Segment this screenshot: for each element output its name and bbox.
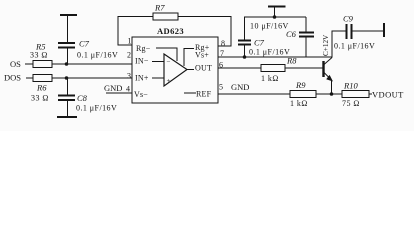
transistor Q1 — [324, 58, 334, 95]
pin label OUT — [195, 64, 212, 73]
svg-text:5: 5 — [219, 83, 223, 92]
svg-text:C6: C6 — [286, 29, 297, 39]
node GND label pin5 — [231, 82, 249, 92]
node +12V rail label — [322, 34, 330, 56]
resistor R9 — [290, 80, 316, 108]
node junction ground tap — [273, 15, 277, 19]
capacitor C8 — [58, 78, 117, 116]
capacitor C7 left — [58, 15, 118, 64]
node junction DOS C8 — [65, 76, 69, 80]
svg-text:OS: OS — [10, 59, 21, 69]
svg-text:GND: GND — [231, 82, 249, 92]
ground bottom-left — [57, 116, 77, 118]
svg-text:0.1 μF/16V: 0.1 μF/16V — [249, 48, 290, 57]
svg-text:1 kΩ: 1 kΩ — [261, 74, 279, 83]
wire Rg- internal — [156, 48, 177, 61]
svg-text:IN+: IN+ — [135, 74, 149, 83]
svg-text:2: 2 — [127, 51, 131, 60]
resistor R8 — [261, 56, 297, 84]
svg-text:6: 6 — [219, 61, 223, 70]
resistor R6 — [31, 75, 52, 103]
svg-text:R6: R6 — [36, 83, 47, 93]
wire mid ground rail — [244, 16, 306, 18]
pin label Vs+ — [195, 51, 209, 60]
wire C9 right segment — [352, 30, 383, 32]
wire triangle input stubs — [152, 62, 164, 79]
capacitor C6 — [250, 17, 314, 57]
svg-text:0.1 μF/16V: 0.1 μF/16V — [77, 51, 118, 60]
node C9 terminal bar — [383, 23, 385, 37]
resistor R5 — [30, 42, 52, 68]
svg-text:AD623: AD623 — [157, 26, 184, 36]
wire pin7 Vs+ supply line — [218, 56, 332, 58]
wire R7 feedback loop pin1 to pin8 — [118, 17, 231, 47]
node junction emitter R9 R10 — [330, 92, 334, 96]
svg-text:DOS: DOS — [4, 73, 21, 83]
node VDOUT output label — [372, 90, 404, 100]
svg-text:75 Ω: 75 Ω — [342, 99, 360, 108]
capacitor C9 — [334, 14, 375, 51]
svg-text:R8: R8 — [286, 56, 297, 66]
svg-text:C8: C8 — [77, 93, 88, 103]
wire Rg+ internal — [184, 49, 194, 67]
svg-text:1: 1 — [128, 37, 132, 46]
wire REF internal stub — [184, 92, 196, 94]
pin label IN- — [135, 57, 149, 66]
node OS label — [10, 59, 21, 69]
svg-text:10 μF/16V: 10 μF/16V — [250, 22, 289, 31]
resistor R7 — [153, 3, 178, 21]
pin label Rg+ — [195, 43, 210, 52]
node DOS label — [4, 73, 21, 83]
svg-text:IN−: IN− — [135, 57, 149, 66]
svg-text:−: − — [167, 58, 171, 66]
wire pin5 REF bottom line to VDOUT — [218, 93, 372, 95]
svg-text:GND: GND — [104, 83, 122, 93]
svg-text:4: 4 — [126, 85, 130, 94]
wire pin6 OUT to transistor base — [218, 67, 323, 69]
op-amp U1 AD623 package box — [132, 26, 218, 103]
pin label Vs- — [134, 90, 148, 99]
pin number 2 — [127, 51, 131, 60]
wire OS input line pin2 — [25, 63, 132, 65]
svg-text:0.1 μF/16V: 0.1 μF/16V — [334, 42, 375, 51]
svg-text:R10: R10 — [343, 81, 358, 91]
wire triangle output stub — [187, 69, 194, 71]
pin number 4 — [126, 85, 130, 94]
pin number 7 — [220, 49, 224, 58]
node GND label pin4 — [104, 83, 122, 93]
svg-text:1 kΩ: 1 kΩ — [290, 99, 308, 108]
node junction C7 Vs+ — [243, 55, 247, 59]
wire +12V rail corner to C9 — [332, 31, 346, 58]
pin label Rg- — [136, 44, 151, 53]
svg-text:0.1 μF/16V: 0.1 μF/16V — [76, 104, 117, 113]
svg-text:C7: C7 — [254, 38, 265, 48]
pin label REF — [196, 90, 212, 99]
pin number 8 — [221, 39, 225, 48]
svg-text:3: 3 — [127, 72, 131, 81]
ground mid top — [268, 7, 286, 18]
svg-text:C9: C9 — [343, 14, 354, 24]
svg-text:8: 8 — [221, 39, 225, 48]
svg-text:R7: R7 — [154, 3, 165, 13]
svg-text:+: + — [167, 77, 171, 85]
svg-text:REF: REF — [196, 90, 212, 99]
svg-text:OUT: OUT — [195, 64, 212, 73]
svg-text:C7: C7 — [79, 39, 90, 49]
wire pin4 GND stub — [106, 92, 132, 94]
pin label IN+ — [135, 74, 149, 83]
svg-text:7: 7 — [220, 49, 224, 58]
pin number 5 — [219, 83, 223, 92]
svg-text:33 Ω: 33 Ω — [31, 94, 49, 103]
pin number 1 — [128, 37, 132, 46]
svg-text:R9: R9 — [295, 80, 306, 90]
svg-text:33 Ω: 33 Ω — [30, 51, 48, 60]
svg-text:C+12V: C+12V — [322, 34, 330, 56]
svg-text:Vs−: Vs− — [134, 90, 148, 99]
ground top-left — [60, 14, 77, 16]
op-amp triangle — [164, 54, 187, 86]
capacitor C7 mid — [238, 17, 290, 57]
svg-text:VDOUT: VDOUT — [372, 90, 404, 100]
pin number 3 — [127, 72, 131, 81]
pin number 6 — [219, 61, 223, 70]
svg-text:Rg−: Rg− — [136, 44, 151, 53]
node junction OS C7 — [65, 62, 69, 66]
svg-text:Vs+: Vs+ — [195, 51, 209, 60]
resistor R10 — [342, 81, 369, 109]
wire DOS input line pin3 — [26, 77, 132, 79]
